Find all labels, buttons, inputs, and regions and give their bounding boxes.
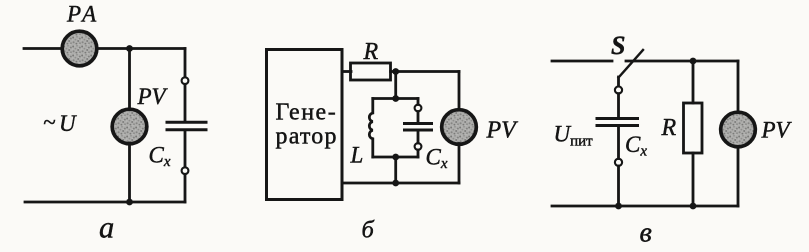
wire: terminal to plates: [417, 112, 420, 123]
junction: top of PV branch circuit a: [126, 45, 133, 52]
resistor R (circuit v): [684, 103, 703, 153]
wire: circuit a PV branch upper: [128, 49, 131, 111]
svg-text:Гене-: Гене-: [276, 99, 338, 125]
svg-text:~U: ~U: [43, 110, 79, 137]
terminal: lower terminal of Cx circuit b: [415, 143, 422, 150]
wire: lever pivot stub: [617, 77, 620, 86]
junction: tank stem bottom on rail: [392, 180, 399, 187]
junction: bottom of PV branch circuit a: [126, 199, 133, 206]
svg-text:PV: PV: [761, 117, 793, 142]
wire: capacitor to lower terminal: [184, 131, 187, 167]
wire: generator to resistor R: [342, 70, 351, 73]
wire: resistor to PV corner circuit b: [391, 70, 460, 73]
ammeter PA: [62, 31, 97, 66]
wire: circuit a top-left lead: [24, 47, 61, 50]
wire: terminal to tank bottom: [417, 150, 420, 157]
wire: tank bottom side: [373, 156, 418, 159]
wire: contact to capacitor: [617, 94, 620, 117]
wire: circuit b bottom rail: [342, 182, 459, 185]
terminal: upper terminal of Cx circuit a: [182, 77, 189, 84]
voltmeter PV (circuit v): [721, 112, 756, 147]
switch S lever: [619, 50, 644, 78]
wire: PV branch down circuit b: [458, 72, 461, 111]
wire: circuit a bottom rail: [25, 201, 185, 204]
svg-text:R: R: [661, 115, 677, 141]
junction: Cx branch bottom: [615, 203, 622, 210]
capacitor Cx (circuit v): [597, 119, 638, 126]
wire: circuit v bottom rail: [552, 205, 738, 208]
wire: PV to bottom rail circuit b: [458, 144, 461, 184]
wire: tank top side: [373, 97, 418, 100]
wire: plates to lower terminal: [417, 132, 420, 144]
svg-text:PV: PV: [486, 118, 519, 144]
svg-text:S: S: [611, 31, 625, 60]
svg-text:б: б: [362, 217, 375, 244]
terminal: switch fixed contact: [615, 86, 622, 93]
junction: R branch top: [690, 58, 697, 65]
junction: tank bottom node: [392, 154, 399, 161]
wire: stem to tank top: [394, 72, 397, 99]
wire: circuit a PV branch lower: [128, 143, 131, 202]
junction: tank stem top: [392, 68, 399, 75]
wire: terminal to bottom rail: [617, 166, 620, 206]
svg-text:L: L: [350, 143, 364, 168]
voltmeter PV (circuit b): [442, 110, 477, 145]
svg-text:а: а: [99, 211, 114, 245]
resistor R (circuit b): [351, 63, 391, 80]
junction: R branch bottom: [690, 203, 697, 210]
wire: circuit v top-left rail: [552, 60, 612, 63]
wire: tank stem bottom: [394, 157, 397, 183]
wire: circuit a right branch lower: [184, 174, 187, 202]
wire: R branch upper: [692, 61, 695, 103]
capacitor Cx (circuit b): [405, 124, 432, 131]
wire: terminal to capacitor plate: [184, 84, 187, 121]
wire: circuit a top rail PA to corner: [97, 47, 185, 50]
capacitor Cx (circuit a): [167, 122, 206, 129]
svg-text:PA: PA: [66, 1, 100, 26]
voltmeter PV (circuit a): [112, 109, 147, 144]
svg-text:в: в: [640, 217, 652, 248]
svg-text:PV: PV: [137, 84, 169, 109]
junction: tank top node: [392, 95, 399, 102]
wire: R branch lower: [692, 153, 695, 206]
wire: PV branch upper circuit v: [737, 61, 740, 112]
wire: circuit v top-right rail: [626, 60, 738, 63]
svg-text:R: R: [363, 39, 379, 65]
inductor L: [369, 99, 372, 158]
terminal: upper terminal of Cx circuit b: [415, 105, 422, 112]
svg-text:ратор: ратор: [276, 124, 338, 150]
generator box: [267, 50, 343, 200]
wire: circuit a right branch upper: [184, 49, 187, 78]
terminal: lower terminal circuit v: [615, 159, 622, 166]
wire: tank right upper: [417, 99, 420, 105]
terminal: lower terminal of Cx circuit a: [182, 167, 189, 174]
wire: capacitor to terminal: [617, 127, 620, 159]
wire: PV branch lower circuit v: [737, 147, 740, 207]
